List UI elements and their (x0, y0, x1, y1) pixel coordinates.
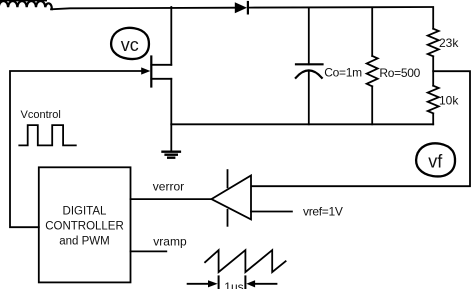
svg-text:1us: 1us (224, 280, 243, 289)
wire top rail from diode to 23k branch (249, 6, 433, 9)
svg-text:CONTROLLER: CONTROLLER (45, 220, 124, 232)
svg-text:DIGITAL: DIGITAL (63, 206, 107, 218)
svg-text:23k: 23k (439, 36, 459, 50)
label DIGITAL CONTROLLER and PWM (45, 206, 124, 248)
wire verror from controller to comparator output (131, 198, 212, 200)
wire bottom bus (171, 123, 433, 125)
node vc (111, 28, 149, 59)
waveform vramp sawtooth (205, 250, 286, 272)
resistor Ro (367, 9, 378, 125)
ground (163, 124, 180, 157)
wire feedback tap to comparator input (251, 71, 470, 186)
wire MOSFET source down to bus (170, 79, 172, 125)
wire gate to left edge and down to controller (10, 71, 144, 227)
wire vref input (251, 211, 292, 213)
node vf (416, 143, 455, 176)
inductor L1 (0, 0, 52, 9)
diode D1 (235, 2, 248, 13)
capacitor Co (296, 9, 323, 125)
svg-text:Ro=500: Ro=500 (379, 66, 420, 80)
svg-text:vc: vc (121, 35, 139, 55)
dimension 1us arrows (188, 276, 277, 289)
svg-text:vramp: vramp (153, 235, 187, 249)
svg-text:Co=1m: Co=1m (324, 66, 362, 80)
svg-text:Vcontrol: Vcontrol (21, 109, 61, 121)
svg-text:and PWM: and PWM (59, 236, 110, 248)
op-amp U1 (comparator) (211, 170, 251, 226)
svg-text:vf: vf (428, 152, 443, 172)
resistor R2 10k (428, 86, 439, 125)
transistor Q1 (MOSFET) (141, 57, 171, 87)
svg-text:verror: verror (153, 180, 184, 194)
wire MOSFET drain to rail (170, 7, 172, 65)
wire top rail from inductor to diode (51, 8, 235, 10)
waveform Vcontrol square wave (19, 125, 76, 145)
svg-text:vref=1V: vref=1V (303, 204, 343, 218)
svg-text:10k: 10k (439, 94, 459, 108)
wire vramp stub (131, 250, 167, 252)
resistor R1 23k (428, 9, 439, 86)
digital controller U2 box (39, 167, 131, 282)
